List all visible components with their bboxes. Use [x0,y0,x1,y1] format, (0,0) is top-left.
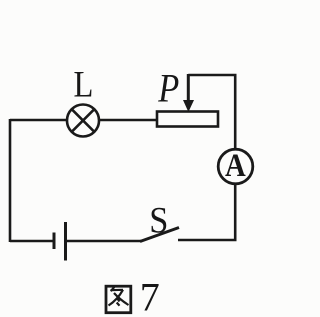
svg-text:S: S [149,199,168,240]
svg-text:L: L [74,64,94,105]
svg-text:7: 7 [140,275,160,317]
svg-text:P: P [157,67,179,111]
svg-text:A: A [225,146,246,183]
